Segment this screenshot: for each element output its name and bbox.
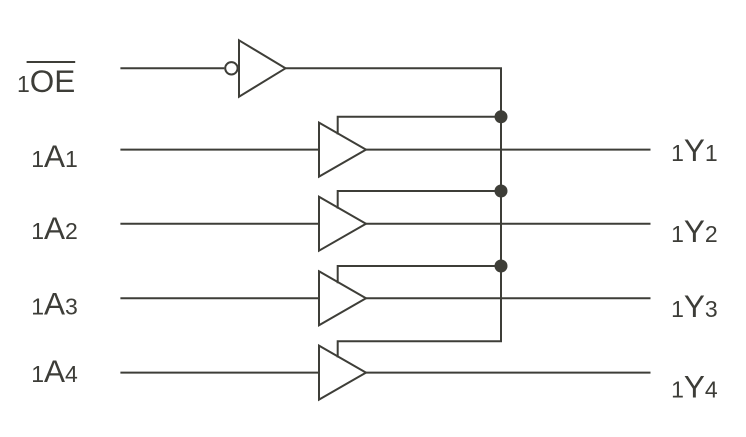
svg-text:1A3: 1A3: [31, 286, 78, 322]
svg-text:1Y3: 1Y3: [671, 288, 718, 324]
svg-text:1OE: 1OE: [17, 63, 75, 99]
svg-text:1Y1: 1Y1: [671, 132, 718, 168]
svg-text:1Y2: 1Y2: [671, 213, 718, 249]
svg-text:1A2: 1A2: [31, 210, 78, 246]
svg-text:1A4: 1A4: [31, 353, 78, 389]
svg-text:1Y4: 1Y4: [671, 369, 718, 405]
svg-text:1A1: 1A1: [31, 138, 78, 174]
